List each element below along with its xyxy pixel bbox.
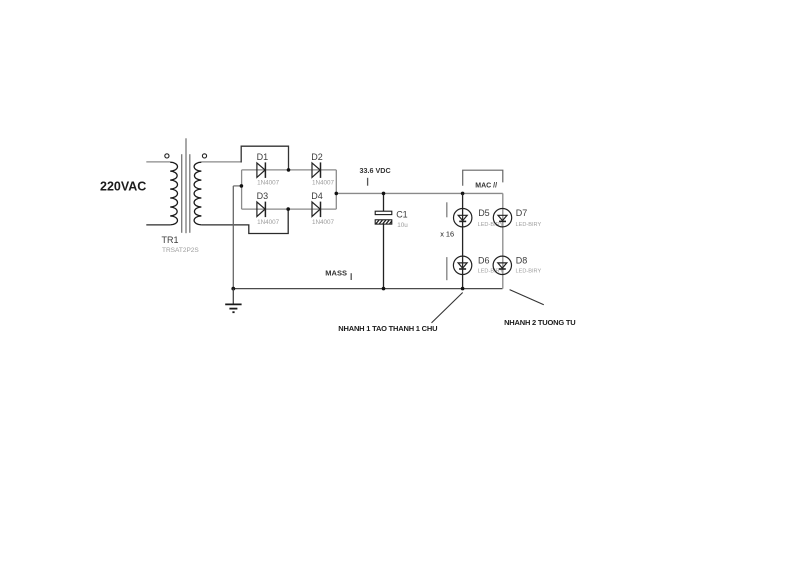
transformer TR1 primary winding — [170, 162, 177, 225]
wire left LED branch vertical — [462, 193, 464, 288]
svg-text:TRSAT2P2S: TRSAT2P2S — [162, 247, 199, 254]
diode D4 — [312, 202, 321, 218]
wire secondary bottom and staircase to D3-D4 node — [201, 210, 288, 234]
svg-text:NHANH 2 TUONG TU: NHANH 2 TUONG TU — [504, 318, 575, 327]
diode D3 — [257, 202, 266, 218]
wire bridge left rail — [241, 170, 243, 209]
svg-text:1N4007: 1N4007 — [257, 180, 280, 187]
junction dot bridge left rail to ground — [240, 184, 244, 188]
wire right LED branch vertical — [502, 193, 504, 288]
wire stub from bridge left rail to ground feed — [233, 185, 241, 187]
junction dot C1 bottom on MASS rail — [382, 287, 386, 291]
svg-text:D3: D3 — [257, 191, 269, 201]
svg-text:1N4007: 1N4007 — [312, 180, 335, 187]
annotation leader line to NHANH 2 label — [510, 290, 544, 305]
junction dot left LED branch on rail — [461, 192, 465, 196]
svg-text:220VAC: 220VAC — [100, 180, 146, 194]
wire C1 top lead — [383, 193, 385, 211]
wire primary top stub — [146, 161, 170, 163]
wire output rail 33.6VDC — [336, 192, 503, 194]
transformer TR1 core — [182, 138, 190, 233]
junction dot output node — [335, 192, 339, 196]
LED D5 — [454, 209, 472, 227]
junction dot C1 top on rail — [382, 192, 386, 196]
wire MAC bracket annotation — [463, 170, 503, 186]
junction dot D3-D4 node — [286, 207, 290, 211]
svg-text:x 16: x 16 — [440, 229, 454, 238]
ground symbol — [225, 304, 241, 312]
svg-text:MASS: MASS — [325, 269, 347, 278]
wire ground lead — [232, 289, 234, 304]
svg-text:D8: D8 — [516, 256, 528, 266]
annotation tick left of D6 — [446, 257, 448, 280]
svg-text:D6: D6 — [478, 256, 490, 266]
svg-text:10u: 10u — [397, 222, 408, 229]
diode D1 — [257, 162, 266, 178]
svg-text:1N4007: 1N4007 — [312, 219, 335, 226]
svg-text:D4: D4 — [311, 191, 323, 201]
transformer TR1 primary polarity dot terminal — [165, 154, 169, 158]
junction dot left LED branch on MASS rail — [461, 287, 465, 291]
svg-text:D1: D1 — [257, 152, 269, 162]
svg-text:1N4007: 1N4007 — [257, 219, 280, 226]
annotation leader line to NHANH 1 label — [432, 293, 463, 323]
wire C1 bottom lead — [383, 224, 385, 289]
svg-text:LED-BIRY: LED-BIRY — [516, 268, 542, 274]
wire bridge right rail — [335, 170, 337, 209]
svg-text:LED-BIRY: LED-BIRY — [516, 222, 542, 228]
wire secondary top — [201, 161, 241, 163]
svg-text:33.6 VDC: 33.6 VDC — [360, 166, 391, 175]
wire D1 row — [242, 169, 337, 171]
svg-text:NHANH 1 TAO THANH 1 CHU: NHANH 1 TAO THANH 1 CHU — [338, 324, 437, 333]
wire ground feed vertical — [232, 186, 234, 289]
wire top staircase to D1-D2 node — [241, 146, 288, 169]
diode D2 — [312, 162, 321, 178]
junction dot D1-D2 node — [287, 168, 291, 172]
svg-text:LED-BIRY: LED-BIRY — [478, 222, 504, 228]
annotation tick left of D5 — [446, 202, 448, 217]
wire MASS rail — [233, 288, 502, 290]
LED D8 — [493, 256, 511, 274]
wire primary bottom stub — [146, 224, 170, 226]
svg-text:D5: D5 — [478, 208, 490, 218]
LED D7 — [493, 209, 511, 227]
svg-text:TR1: TR1 — [162, 235, 179, 245]
svg-text:MAC //: MAC // — [475, 183, 497, 190]
capacitor C1 — [375, 211, 392, 224]
svg-text:C1: C1 — [396, 209, 408, 219]
tick marker under 33.6 VDC — [367, 178, 369, 186]
wire D3 row — [242, 208, 337, 210]
tick marker right of MASS — [350, 273, 352, 280]
LED D6 — [453, 256, 471, 274]
junction dot ground on MASS rail — [231, 287, 235, 291]
svg-text:D7: D7 — [516, 208, 528, 218]
transformer TR1 secondary winding — [194, 162, 201, 225]
svg-text:D2: D2 — [311, 152, 323, 162]
transformer TR1 secondary polarity dot terminal — [202, 154, 206, 158]
